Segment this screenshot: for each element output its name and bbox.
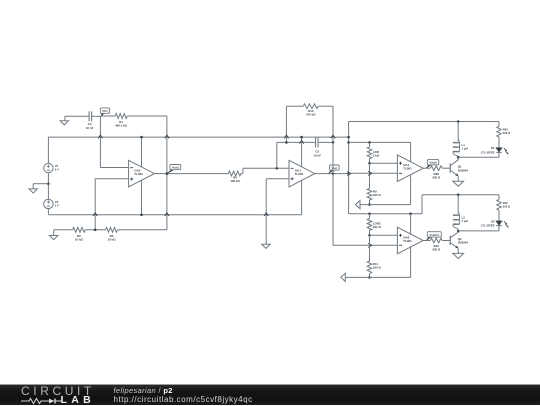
node dot: divider midpoint [94,229,97,232]
wire: feed corner to OA6 inverting input (hops LDR2 chain) [333,244,397,246]
wire: junction to V6 plus [47,184,49,200]
svg-text:D1: D1 [491,146,495,150]
svg-text:499.1 kΩ: 499.1 kΩ [115,124,128,128]
node junction between V5 and V6 [47,182,50,185]
wire: LDR2 to + tap [369,231,371,236]
resistor R11 160 Ohm [367,261,381,273]
wire: OA1 inv node up to C2/R10 left rail [277,142,315,168]
svg-text:200 Ω: 200 Ω [373,225,382,229]
wire: ground to C3 [65,115,89,117]
wire: chain down to R11 (hops - line) [369,235,371,261]
wire: OA2 output to R4 [154,173,228,175]
ground (OA1 + input) [262,244,270,248]
wire: R20 to D1 [498,137,500,148]
node dot: LDR top tap [368,141,371,144]
wire: L1 top lead [457,122,459,142]
CircuitLab logo [21,386,113,405]
node dot: OA4 - line tee [347,172,350,175]
wire: collector junction to LED2 branch [458,230,499,232]
wire: R22 to D2 [498,210,500,221]
node dot: +5V rail end tee [347,136,350,139]
wire hop: R10 left leg over +5V rail [284,135,288,138]
ground (C3 left) [60,116,68,125]
svg-text:10 kΩ: 10 kΩ [108,238,117,242]
resistor R20 220 Ohm [497,126,511,137]
wire: C3 to node VC1 [92,115,101,117]
svg-text:VC1: VC1 [102,109,108,113]
wire: D1 to collector wire [498,152,500,157]
wire: V5 top lead up to +5V rail [47,137,49,163]
wire: block1 power rail to OA4 V+ pin [349,142,411,162]
resistor R22 220 Ohm [497,200,511,211]
wire hop: R10 right leg over +5V rail [331,135,335,138]
op-amp OA6 TL081 (plus on top) [397,227,423,254]
node dot: OA2 V+ tap [140,136,143,139]
wire: R3 to feedback vertical [117,229,166,231]
wire: LDR to + tap [369,159,371,164]
wire hop: OA4 - line over LDR/R9 chain [368,171,371,175]
ground arrow (block2 bottom, points left) [341,273,346,281]
wire hop: OA2 + input vertical over V6 rail [93,213,97,216]
LED D2 LTL-307EE [481,219,509,227]
wire: OA4 - input line from supply column (hops chain) [349,172,398,174]
svg-text:TL081: TL081 [134,172,143,176]
wire: OA4 output to R98 [423,167,430,169]
resistor R2 10 kOhm [73,227,86,241]
wire: C2 right to node B [318,141,333,143]
svg-text:2 kΩ: 2 kΩ [373,154,380,158]
svg-text:160 Ω: 160 Ω [373,193,382,197]
wire: Q2 emitter to ground [457,249,459,254]
wire: R10 top right lead + right leg [318,106,333,142]
wire hop: feedback vertical over V6 rail [165,213,169,216]
ground (between V5 and V6) [29,189,37,193]
wire: block2 top wire (y=213.8) with jog up to LED supply (y=194.7) [349,195,499,214]
wire: R4 step up to OA1 inverting input [243,168,289,173]
svg-text:V5: V5 [55,164,59,168]
node Vout0.2 label [427,232,442,241]
node dot: OA6 + input tap [368,234,371,237]
node dot: R10 left leg on C2 rail [285,141,288,144]
capacitor C3 10 nF [86,111,94,130]
resistor R1 499.1 kOhm [115,114,128,128]
wire: OA1 V- power pin to V6 rail [301,180,303,215]
wire: VC1 node to R1 [100,115,115,117]
wire: OA6 V+ power pin [410,214,412,234]
svg-text:2N3904: 2N3904 [458,241,469,245]
wire: OA2 V+ power pin from +5V rail [141,137,143,167]
node Vout dot [332,172,335,175]
svg-text:5 V: 5 V [55,168,59,172]
wire: V5 minus to junction [47,173,49,184]
svg-text:1 μH: 1 μH [462,219,468,223]
wire: OA1 non-inverting input down to ground (hops V6 rail) [266,179,289,244]
svg-text:2N3904: 2N3904 [458,168,469,172]
resistor LDR 2 kOhm [367,142,380,158]
wire: feedback vertical R1/R3 down to Vout1 and R3 (x=167) [166,116,168,230]
wire: OA4 + input line [370,162,398,164]
svg-text:220 Ω: 220 Ω [503,131,511,135]
wire: ground to R2 [54,229,73,231]
wire: corner down to R22 [498,195,500,200]
node VC1 label [100,108,109,116]
svg-text:TL081: TL081 [403,167,412,171]
resistor R3 10 kOhm [106,227,118,241]
wire: block2 bottom wire to OA6 V- pin [345,247,410,277]
svg-text:LTL-307EE: LTL-307EE [481,224,495,228]
resistor R9 160 Ohm [367,189,381,201]
wire: collector junction to LED branch [458,156,499,158]
node dot: LDR2 top tap [368,213,371,216]
wire: stub to mid ground [33,184,48,189]
wire: OA6 + input line [370,234,398,236]
wire: VC1 down to OA2 inverting input (hops +5V rail) [100,116,128,168]
ground (Q2 emitter) [453,253,464,258]
resistor LDR2 200 Ohm [367,214,381,231]
wire: R99 to Q2 base [442,240,450,242]
ground arrow (block1 bottom, points left) [356,201,361,209]
op-amp OA4 TL081 (plus on top) [397,155,423,181]
svg-text:10 nF: 10 nF [313,153,321,157]
wire: L2 top lead [457,195,459,214]
node Vout1 dot [166,172,169,175]
svg-text:Vout1: Vout1 [172,165,180,169]
svg-text:TL081: TL081 [403,239,412,243]
wire: OA1 output stub (hops right column) [315,173,351,175]
svg-text:LTL-307EE: LTL-307EE [481,150,495,154]
node dot: OA4 + input tap [368,162,371,165]
svg-text:200 Ω: 200 Ω [432,175,441,179]
wire: R2 to R3 [85,229,105,231]
svg-text:Vout0.2: Vout0.2 [430,233,440,237]
inductor L1 1 uH [453,140,468,158]
node dot: OA1 V+ tap [300,136,303,139]
voltage source V6 5V [44,199,59,208]
resistor R10 470 kOhm [303,104,318,117]
capacitor C2 10 nF [313,137,321,157]
wire: Q2 collector to L2/D2 junction [457,231,459,233]
node dot: node B on C2 rail [332,141,335,144]
svg-text:220 Ω: 220 Ω [503,204,511,208]
node dot: block1 power rail tee [347,141,350,144]
wire: R9 to bottom wire [369,200,371,205]
wire: big vertical node B down to block2 feed [332,142,334,245]
svg-text:10 kΩ: 10 kΩ [75,238,84,242]
op-amp OA2 TL081 [129,160,155,187]
node dot: R11 bottom tee [368,276,371,279]
svg-text:Vout0: Vout0 [429,161,437,165]
svg-text:R22: R22 [503,201,508,205]
wire: R98 to Q1 base [442,167,450,169]
wire: block1 bottom wire to OA4 V- pin [360,175,411,204]
node dot: OA2 V- tap [140,214,143,217]
ground (Q1 emitter) [453,181,464,186]
svg-text:5 V: 5 V [55,203,59,207]
wire: D2 to collector wire [498,226,500,231]
LED D1 LTL-307EE [481,146,509,154]
resistor R4 490 kOhm [228,171,243,183]
wire: R11 to bottom wire [369,273,371,277]
svg-text:160 Ω: 160 Ω [373,266,382,270]
resistor R98 200 Ohm [430,166,442,180]
wire: V6 bottom rail (y=215) to OA1 V- pin [48,214,301,216]
node Vout0 label [427,160,439,168]
transistor Q2 2N3904 [450,232,468,248]
svg-text:490 kΩ: 490 kΩ [230,179,240,183]
svg-text:Vout: Vout [331,166,337,170]
wire: +5V rail (y=137) from V5 to right column [48,136,348,138]
wire hop: VC1 vertical over +5V rail [98,135,102,138]
node dot: L2 top tap [457,193,460,196]
inductor L2 1 uH [453,212,468,231]
node dot: collector junction [457,156,460,159]
ground (R2 left) [50,230,58,240]
svg-text:470 kΩ: 470 kΩ [306,113,316,117]
voltage source V5 5V [44,163,59,172]
svg-text:200 Ω: 200 Ω [432,248,441,252]
wire hop: output stub over right column vertical [347,172,350,176]
wire: chain down to R9 [369,163,371,188]
wire hop: OA1 V+ pin over C2 rail [300,140,304,143]
node Vout1 label [168,165,181,173]
node dot: OA6 V+ tee [409,213,412,216]
wire: top corner down to R20 [498,122,500,127]
transistor Q1 2N3904 [450,160,468,176]
wire hop: feedback vertical over +5V rail [165,135,169,138]
resistor R99 200 Ohm [430,238,442,252]
wire: LED supply top wire (y=121.5) [349,121,499,123]
wire: V6 minus down to bottom rail [47,209,49,215]
node dot: OA1 inverting node [276,167,279,170]
wire: Q1 collector up to L1/D1 junction [457,157,459,160]
wire: R1 to feedback corner [127,115,167,117]
wire: Q1 emitter to ground [457,176,459,181]
op-amp OA1 TL081 [289,160,315,187]
node dot: R9 bottom tee [368,203,371,206]
node dot: L1 top tap on supply [457,120,460,123]
wire hop: OA6 - input line over LDR2 chain [368,243,371,247]
wire: R10 left leg [285,106,287,142]
wire: R10 top left lead [286,105,303,107]
svg-text:1 μH: 1 μH [462,147,468,151]
wire: OA1 V+ power pin from +5V rail (hops C2 rail) [301,137,303,167]
node Vout label [329,165,340,173]
wire hop: OA1 + input over V6 rail [264,213,268,216]
svg-text:R20: R20 [503,128,508,132]
node dot: Q2 collector junction [457,230,460,233]
wire: OA6 output to R99 [423,240,430,242]
wire: right supply column (x=348.6) [348,122,350,214]
svg-text:D2: D2 [491,219,495,223]
wire: OA2 V- power pin to V6 rail [141,180,143,215]
svg-text:V6: V6 [55,200,59,204]
svg-text:TL081: TL081 [295,172,304,176]
svg-text:10 nF: 10 nF [86,126,94,130]
wire: OA2 non-inverting input to divider (hops V6 rail) [95,179,128,230]
